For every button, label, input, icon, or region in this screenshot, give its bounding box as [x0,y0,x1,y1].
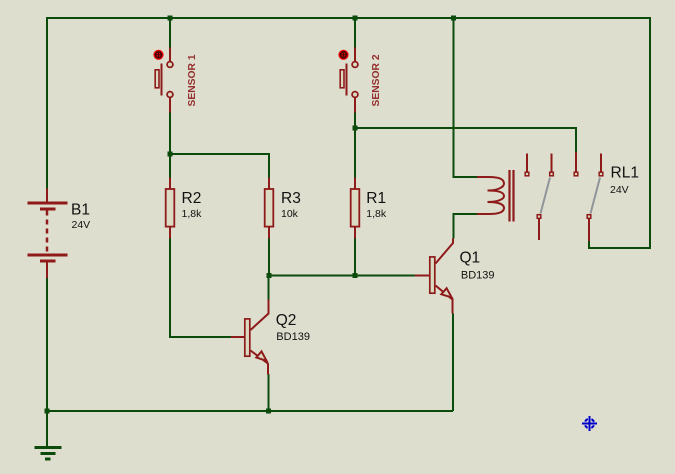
wire bottom rail [47,410,453,412]
origin cursor [582,416,597,431]
svg-text:10k: 10k [281,208,299,220]
relay arm 2 [591,178,601,214]
svg-text:B1: B1 [71,201,90,218]
svg-text:Q1: Q1 [460,250,481,267]
wire Q1 emitter down [452,314,454,412]
junction Q2 emitter bottom rail [266,409,271,414]
wire sensor2 node to relay contact stub3 [355,128,576,153]
wire relay coil bottom to Q1 collector [454,214,478,239]
wire top rail to relay coil top [454,18,478,177]
wire right loop top rail to relay pole2 [589,17,650,248]
junction top rail sensor1 [168,16,173,21]
transistor Q2 [231,300,269,375]
wire sensor2 top drop [354,18,356,48]
relay pole 2 [587,215,591,241]
battery B1 [28,189,68,279]
wire left vertical battery bottom to ground [46,278,48,446]
relay contact stub 3 [574,152,578,176]
wire sensor1 top drop [169,18,171,48]
relay contact stub 4 [599,154,603,176]
relay pole 1 [537,215,541,240]
wire base bus to Q1 [269,275,415,277]
svg-text:SENSOR 2: SENSOR 2 [371,54,382,106]
svg-text:24V: 24V [610,184,629,196]
junction battery bottom rail [45,409,50,414]
svg-text:1,8k: 1,8k [366,208,387,220]
svg-text:SENSOR 1: SENSOR 1 [187,54,198,106]
relay RL1 core bars [510,170,514,222]
wire R3 bottom to bus [268,238,270,276]
ground [35,448,62,460]
resistor R1 [351,178,360,239]
junction sensor2 bottom node [353,126,358,131]
relay arm 1 [541,178,551,214]
svg-text:R2: R2 [182,190,202,207]
svg-text:BD139: BD139 [461,270,495,282]
wire sensor1 bottom to R2 [169,113,171,178]
svg-text:24V: 24V [72,219,91,231]
junction R1 bottom bus [353,273,358,278]
wire R1 bottom to bus [354,238,356,276]
wire left vertical battery top [46,17,48,189]
junction top rail coil feed [451,16,456,21]
push button SENSOR 1 [153,48,173,113]
wire Q2 emitter down [268,374,270,411]
relay contact stub 1 [525,154,529,176]
wire sensor2 bottom to R1 [354,113,356,178]
relay contact stub 2 [550,154,554,176]
svg-text:Q2: Q2 [276,312,297,329]
push button SENSOR 2 [338,48,358,113]
junction top rail sensor2 [353,16,358,21]
junction R3 bottom bus [267,273,272,278]
svg-text:BD139: BD139 [276,331,310,343]
wire Q2 collector up to bus [268,276,270,301]
resistor R3 [265,178,274,239]
wire node sensor1 to R3 top [170,154,269,178]
wire R2 bottom to Q2 base [170,238,231,337]
svg-text:1,8k: 1,8k [182,208,203,220]
wire top rail [47,17,651,19]
junction sensor1 bottom node [168,152,173,157]
relay RL1 coil [477,177,504,214]
svg-text:RL1: RL1 [611,165,639,182]
transistor Q1 [415,239,453,314]
svg-text:R1: R1 [366,190,386,207]
resistor R2 [166,178,175,239]
svg-text:R3: R3 [281,190,301,207]
